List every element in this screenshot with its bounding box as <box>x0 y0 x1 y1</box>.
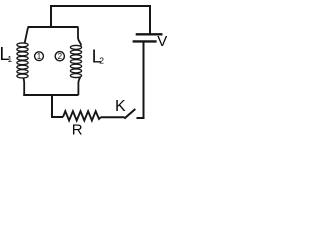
wire: mid drop <box>51 94 53 117</box>
wire: top horizontal <box>51 5 150 7</box>
switch K lever <box>124 109 135 119</box>
battery top plate <box>136 33 163 35</box>
svg-text:2: 2 <box>99 56 104 66</box>
wire: middle riser <box>50 5 52 27</box>
svg-text:2: 2 <box>58 52 63 61</box>
svg-text:1: 1 <box>7 54 12 64</box>
wire: battery top lead <box>149 5 151 34</box>
wire: coil-top horizontal <box>28 26 79 28</box>
inductor L2 <box>70 28 81 96</box>
svg-text:V: V <box>157 33 167 50</box>
wire: resistor right lead <box>101 116 125 118</box>
wire: switch right contact <box>137 117 145 119</box>
inductor L1 <box>17 28 28 96</box>
battery V <box>133 34 163 41</box>
battery bottom plate <box>133 40 157 42</box>
wire: right vertical <box>143 42 145 119</box>
svg-text:R: R <box>72 122 83 138</box>
svg-text:K: K <box>115 98 126 115</box>
svg-text:1: 1 <box>37 52 42 61</box>
resistor R zigzag <box>63 111 101 120</box>
node 1 (circled) <box>35 52 44 61</box>
wire: drop to resistor <box>51 116 63 118</box>
wire: coil-bottom horizontal <box>23 94 78 96</box>
node 2 (circled) <box>55 52 64 61</box>
